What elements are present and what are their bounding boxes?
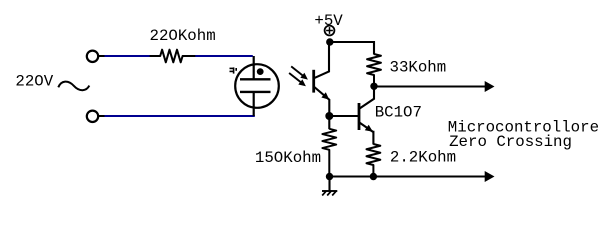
wire top blue left bbox=[105, 55, 151, 57]
node E junction dot bbox=[370, 173, 377, 180]
terminal top bbox=[87, 51, 98, 62]
phototransistor Q1 bbox=[314, 42, 330, 116]
wire bottom rail bbox=[330, 175, 487, 177]
node B junction dot bbox=[370, 83, 377, 90]
light arrow 1 bbox=[291, 66, 308, 79]
AC sine symbol bbox=[58, 82, 89, 91]
wire output top bbox=[374, 85, 486, 87]
light arrow 2 bbox=[289, 73, 306, 86]
transistor Q2 BC107 bbox=[359, 86, 374, 145]
node C junction dot bbox=[325, 112, 333, 120]
+5V supply symbol bbox=[325, 26, 335, 36]
node D junction dot bbox=[326, 173, 333, 180]
wire top black stub bbox=[98, 55, 105, 57]
wire top blue right bbox=[195, 55, 253, 57]
optocoupler glow glyph bbox=[230, 67, 237, 73]
resistor R1 220Kohm bbox=[150, 50, 196, 63]
svg-text:2.2Kohm: 2.2Kohm bbox=[390, 149, 456, 167]
svg-text:33Kohm: 33Kohm bbox=[390, 58, 447, 76]
terminal bottom bbox=[87, 111, 98, 122]
svg-text:BC1O7: BC1O7 bbox=[375, 104, 422, 122]
node A junction dot bbox=[326, 38, 333, 45]
svg-text:22OV: 22OV bbox=[15, 73, 53, 91]
wire bottom black stub bbox=[98, 115, 105, 117]
wire Q2 base bbox=[329, 115, 358, 117]
ground bbox=[322, 177, 337, 196]
arrow output bottom bbox=[485, 171, 495, 182]
svg-text:Zero Crossing: Zero Crossing bbox=[449, 133, 572, 151]
svg-text:15OKohm: 15OKohm bbox=[255, 149, 321, 167]
wire +5V rail to R2 bbox=[330, 42, 374, 55]
resistor R2 33Kohm bbox=[367, 54, 381, 86]
optocoupler U1 lamp bbox=[235, 56, 279, 116]
wire bottom blue bbox=[105, 115, 255, 117]
svg-text:22OKohm: 22OKohm bbox=[150, 27, 216, 45]
arrow output top bbox=[485, 81, 495, 92]
resistor R3 150Kohm bbox=[322, 116, 336, 177]
resistor R4 2.2Kohm bbox=[367, 144, 381, 177]
